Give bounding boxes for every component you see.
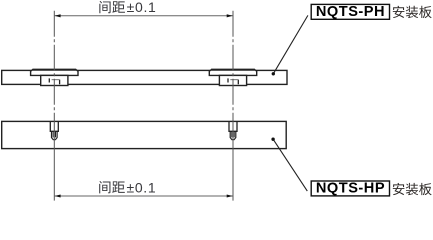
nut body bbox=[41, 75, 68, 85]
top plate NQTS-PH bbox=[2, 70, 287, 84]
svg-text:±0.1: ±0.1 bbox=[126, 179, 156, 195]
threaded stud (cx=233.0) bbox=[229, 122, 237, 131]
floating nut flange (cx=54.3) bbox=[31, 69, 78, 75]
dimension text 间距±0.1 bbox=[99, 181, 125, 193]
centerline x=54.3 bbox=[53, 11, 55, 136]
安装板 top bbox=[393, 6, 432, 18]
right arrowhead bbox=[227, 194, 233, 197]
svg-text:NQTS-PH: NQTS-PH bbox=[316, 4, 385, 20]
right arrowhead bbox=[227, 14, 233, 17]
left arrowhead bbox=[55, 194, 61, 197]
leader dot top bbox=[272, 72, 275, 75]
nut internal ticks bbox=[227, 78, 229, 82]
bottom plate NQTS-HP bbox=[2, 121, 287, 148]
stud thread lines bbox=[52, 132, 54, 138]
nut flange top thick edge bbox=[211, 69, 255, 71]
label box NQTS-HP bbox=[311, 181, 389, 196]
left arrowhead bbox=[55, 14, 61, 17]
nut body bbox=[219, 75, 246, 85]
leader line bottom bbox=[273, 139, 307, 191]
centerline x=233.0 bbox=[232, 11, 234, 136]
nut flange top thick edge bbox=[32, 69, 76, 71]
dimension line y=15.8 bbox=[55, 15, 233, 17]
svg-text:±0.1: ±0.1 bbox=[127, 0, 157, 15]
dimension line y=196.0 bbox=[55, 195, 233, 197]
threaded stud (cx=54.3) bbox=[50, 122, 58, 131]
nut internal ticks bbox=[48, 78, 50, 82]
安装板 bottom bbox=[393, 183, 432, 195]
leader line top bbox=[273, 15, 308, 73]
dimension text 间距±0.1 bbox=[99, 1, 125, 13]
leader dot bottom bbox=[271, 138, 274, 141]
stud thread lines bbox=[231, 132, 233, 138]
floating nut flange (cx=233.0) bbox=[209, 69, 256, 75]
svg-text:NQTS-HP: NQTS-HP bbox=[316, 181, 385, 197]
label box NQTS-PH bbox=[311, 4, 389, 19]
